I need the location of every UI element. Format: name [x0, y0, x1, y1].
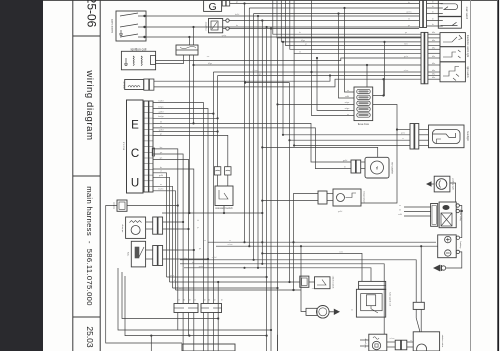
svg-text:re/sw: re/sw	[253, 70, 258, 72]
wire oxygen loop	[106, 206, 182, 344]
svg-text:bu/re: bu/re	[159, 188, 165, 191]
wire regulator 2	[229, 28, 419, 30]
dark page edge right	[497, 0, 499, 351]
wire y82 cross	[244, 82, 290, 84]
loop tail 1	[150, 336, 152, 351]
fuel pump label	[365, 338, 367, 348]
svg-text:gn/gr: gn/gr	[222, 35, 227, 37]
ECU wire 12	[153, 169, 194, 304]
misc wire code labels	[170, 2, 413, 343]
TPS wires	[146, 249, 209, 260]
loop wire 2	[125, 276, 268, 337]
svg-text:re/sw: re/sw	[390, 338, 395, 340]
rev counter label	[391, 162, 394, 174]
rev counter	[365, 157, 389, 178]
bus wire 4	[180, 263, 384, 335]
fuse feed 1	[312, 0, 355, 116]
fuse feed 3	[276, 103, 354, 105]
ground battery	[433, 265, 446, 272]
wire headlight feed 3	[293, 144, 410, 146]
ECU	[127, 100, 155, 193]
trunk branch y13	[254, 13, 419, 15]
ECU wire 16	[153, 191, 176, 290]
wire neutral 1	[146, 15, 419, 17]
headlight label	[466, 131, 469, 141]
svg-text:ge/sw: ge/sw	[406, 12, 412, 14]
wire connector drop 2	[192, 26, 194, 45]
starter relay	[431, 202, 460, 228]
neutral switch	[116, 11, 146, 41]
ECU label	[124, 141, 126, 150]
handlebar switch right label	[466, 35, 469, 58]
sidebar divider 1	[73, 35, 100, 37]
ECU wire 1	[153, 103, 203, 304]
row y75	[218, 74, 421, 76]
svg-text:parking light: parking light	[451, 178, 454, 190]
ECU wire 2	[153, 109, 208, 304]
TPS connector	[153, 246, 163, 266]
fuse box	[354, 87, 373, 126]
staircase 6 drop	[293, 53, 295, 145]
ECU wire 15	[153, 186, 173, 288]
tail light wire	[450, 183, 456, 202]
svg-text:gn/bl: gn/bl	[338, 211, 343, 213]
wire generator	[230, 3, 419, 5]
headlight connector	[410, 124, 419, 150]
staircase wire 2	[277, 0, 421, 38]
relay wires	[398, 205, 431, 216]
fuse out 2 spine	[361, 105, 397, 204]
starter motor label	[441, 335, 444, 348]
main switch label	[465, 7, 468, 20]
wire neutral 3	[146, 36, 421, 38]
connector strip lower	[421, 32, 440, 83]
sidebar left border	[72, 0, 74, 351]
throttle position sensor	[131, 241, 145, 267]
junction P1a	[212, 113, 218, 133]
wire fuse drop x367	[366, 65, 368, 88]
svg-text:ECU 5.9: ECU 5.9	[124, 141, 126, 150]
svg-text:bu: bu	[236, 25, 238, 27]
spark coil label	[389, 292, 392, 306]
link wire y290	[176, 241, 307, 311]
strip wire labels	[432, 1, 436, 80]
ECU wire 7	[153, 131, 218, 133]
oxygen connector label	[113, 201, 115, 209]
svg-text:TPS: TPS	[128, 251, 130, 256]
regulator label	[204, 21, 207, 30]
svg-text:re/w: re/w	[339, 251, 343, 253]
fuse wire labels	[345, 90, 350, 116]
wire headlight feed 2	[288, 139, 410, 141]
staircase wire 1	[273, 0, 421, 34]
svg-text:main switch: main switch	[465, 7, 468, 20]
svg-text:rl: rl	[376, 166, 379, 171]
ECU wire 3	[153, 113, 213, 115]
loop tail 2	[277, 335, 279, 351]
rev counter wires	[343, 160, 365, 169]
row y72	[213, 71, 421, 73]
air temp wires	[146, 221, 190, 230]
ECU wire 5	[153, 123, 351, 162]
fuse drop horn	[382, 78, 384, 95]
svg-text:gn/bl: gn/bl	[159, 112, 164, 114]
svg-text:gn/bl: gn/bl	[343, 160, 348, 162]
svg-text:gn: gn	[259, 74, 261, 76]
headlight branch	[396, 128, 410, 130]
wire connector drop 1	[188, 36, 190, 45]
staircase wire 3	[281, 0, 421, 42]
sidebar right border	[99, 0, 101, 351]
svg-text:gr/bl: gr/bl	[159, 174, 164, 177]
headlight	[429, 125, 465, 148]
link wire y282 clutch	[170, 281, 300, 283]
ECU wire 9	[153, 149, 178, 304]
svg-text:br: br	[160, 166, 162, 169]
TPS label	[128, 251, 130, 256]
battery label	[459, 242, 462, 250]
svg-text:gn: gn	[408, 25, 410, 27]
diagram page border right	[470, 0, 472, 351]
svg-text:battery: battery	[459, 242, 462, 250]
coolant wire 1	[292, 194, 333, 292]
connector A tails	[178, 313, 194, 351]
fuel pump	[369, 334, 387, 351]
svg-text:ge/w: ge/w	[401, 133, 406, 135]
fuse feed 5	[343, 7, 354, 92]
ECU wire 8	[153, 135, 228, 166]
bus wire 2	[216, 245, 438, 247]
ECU wire 11	[153, 159, 189, 303]
svg-text:C: C	[131, 148, 139, 160]
air temp sensor	[126, 217, 146, 238]
fuse out 1	[373, 41, 386, 97]
svg-text:ignition coil: ignition coil	[131, 47, 147, 51]
coolant temp sensor	[318, 189, 361, 206]
connector top-left	[176, 45, 198, 55]
wire coil hot	[156, 58, 421, 61]
svg-text:25.03: 25.03	[85, 326, 95, 348]
tail light label	[451, 178, 454, 190]
sidebar text main harness	[85, 186, 94, 306]
clutch switch	[300, 276, 330, 289]
wire neutral 2	[146, 26, 419, 28]
clutch switch label	[332, 276, 335, 289]
coolant sensor label	[363, 191, 366, 204]
bus wire 253	[261, 241, 362, 281]
svg-text:clutch switch: clutch switch	[332, 276, 335, 289]
wire instrument top feed	[261, 146, 378, 157]
battery minus wire	[446, 252, 462, 268]
ECU wire 13	[153, 173, 167, 277]
sidestand out	[162, 206, 263, 215]
svg-text:bl/w: bl/w	[404, 44, 408, 46]
fuel pump connector	[395, 340, 407, 350]
ECU wire labels	[158, 100, 164, 190]
loop wire 0	[122, 272, 219, 320]
sidebar divider 2	[73, 175, 100, 177]
svg-text:w/sw: w/sw	[404, 70, 409, 72]
svg-text:rev counter: rev counter	[391, 162, 394, 174]
svg-text:or: or	[160, 183, 162, 186]
fuel pump connector wires	[387, 342, 413, 347]
connector strip upper	[420, 0, 443, 28]
instrument connector	[351, 160, 361, 173]
starter wires	[416, 246, 421, 332]
page top edge line	[43, 0, 497, 2]
staircase wire 5	[290, 0, 421, 49]
bottom connector B	[201, 304, 222, 313]
svg-text:ye/bl: ye/bl	[159, 129, 164, 131]
svg-text:br/gn: br/gn	[159, 105, 165, 108]
wire oxygen right	[127, 204, 179, 206]
link wire y288	[173, 287, 279, 289]
svg-text:headlight: headlight	[466, 131, 469, 141]
ignition coil	[121, 47, 155, 70]
start stop switch	[440, 47, 465, 62]
sidebar divider 3	[73, 316, 100, 318]
wire row y65	[194, 64, 422, 66]
wire P2a drop	[282, 41, 284, 135]
fuse feed 2	[316, 57, 354, 111]
bus labels	[183, 258, 204, 268]
sidestand switch	[215, 186, 233, 206]
battery	[438, 235, 460, 258]
svg-text:fuse box: fuse box	[358, 122, 370, 126]
sidestand wire a	[217, 175, 219, 186]
sidestand connectors	[214, 167, 231, 175]
wire pickup 2	[154, 79, 421, 87]
headlight wires	[419, 130, 429, 146]
sidestand switch label	[215, 207, 233, 210]
throttle body box	[182, 344, 235, 351]
svg-text:re/sw: re/sw	[228, 244, 233, 246]
svg-text:re/bl: re/bl	[345, 96, 349, 98]
wire regulator 1	[229, 20, 419, 22]
light switch	[440, 62, 465, 82]
coolant wire 2	[261, 200, 333, 202]
wire headlight feed 1	[282, 134, 410, 136]
svg-text:handlebar switch right: handlebar switch right	[466, 35, 469, 58]
sidebar text 25.03	[85, 326, 95, 348]
svg-text:neutral switch: neutral switch	[111, 18, 114, 33]
link wire y277	[167, 276, 268, 278]
svg-text:25-06: 25-06	[85, 0, 99, 28]
ECU wire 4	[153, 117, 218, 119]
bus wire 3	[180, 259, 416, 303]
svg-text:light switch: light switch	[466, 66, 469, 78]
fuel pump wires	[360, 340, 369, 346]
svg-text:bu/gn: bu/gn	[158, 116, 164, 118]
wire P2b drop	[288, 83, 290, 284]
wire connector tail 1	[156, 55, 184, 64]
svg-text:G: G	[209, 1, 217, 13]
bus wire 1	[204, 240, 436, 243]
ECU wire 14	[153, 177, 170, 282]
staircase wire 4	[286, 0, 421, 46]
spark coil	[356, 281, 385, 317]
svg-text:U: U	[131, 178, 139, 190]
black binder band left edge	[0, 0, 43, 351]
wire pickup 1	[154, 76, 330, 82]
regulator rectifier	[209, 19, 230, 33]
bus wire 5	[184, 267, 371, 282]
main switch	[438, 0, 461, 28]
ECU wire 6	[153, 128, 351, 169]
svg-text:sw/bl: sw/bl	[212, 257, 217, 259]
svg-text:main harness - 586.11.075.00: main harness - 586.11.075.000	[85, 186, 94, 306]
main harness trunk bundle	[243, 2, 272, 351]
sidebar text wiring diagram	[84, 69, 95, 140]
wire connector tail 2	[188, 55, 190, 214]
air temp connector	[153, 217, 163, 234]
pickup coil	[125, 79, 154, 90]
svg-text:starter motor: starter motor	[441, 335, 444, 348]
starter connector	[413, 302, 424, 309]
svg-text:bu/bl: bu/bl	[235, 14, 240, 16]
battery plus wire	[459, 206, 463, 238]
svg-text:air temp.: air temp.	[121, 223, 124, 232]
staircase wire 6	[294, 0, 421, 53]
generator G	[204, 0, 230, 13]
trunk line x277	[277, 38, 279, 351]
light switch label	[466, 66, 469, 78]
sidebar text 25-06	[85, 0, 99, 28]
bottom connector A	[174, 304, 198, 313]
sidestand wire b	[227, 175, 229, 186]
neutral switch label	[111, 18, 114, 33]
svg-text:wiring diagram: wiring diagram	[84, 69, 95, 140]
bottom connector labels	[178, 300, 223, 302]
tail light	[426, 176, 450, 192]
svg-text:temperature: temperature	[363, 191, 366, 204]
svg-text:re/bl: re/bl	[398, 214, 402, 216]
fuse feed 4	[337, 12, 354, 98]
riser A	[212, 72, 214, 304]
ECU wire 10	[153, 154, 183, 304]
svg-text:pick-up: pick-up	[124, 81, 126, 89]
handlebar switch right	[440, 33, 465, 47]
wire connector tail 3	[192, 55, 194, 125]
starter motor	[413, 332, 439, 351]
svg-text:twin spark coil: twin spark coil	[389, 292, 392, 306]
pickup label	[124, 81, 126, 89]
svg-text:gr: gr	[160, 132, 162, 135]
riser B	[217, 76, 219, 167]
svg-text:re/gn: re/gn	[345, 108, 350, 110]
svg-text:bu: bu	[174, 280, 176, 282]
connector B tails	[203, 281, 219, 351]
svg-text:regulator: regulator	[204, 21, 207, 30]
svg-text:bu/bl: bu/bl	[159, 100, 164, 102]
svg-text:E: E	[131, 120, 139, 132]
trunk branch y8	[249, 7, 419, 9]
spark plug	[306, 306, 340, 319]
starter relay label	[459, 209, 462, 221]
loop wire 1	[118, 268, 272, 331]
svg-text:lambda: lambda	[113, 201, 115, 209]
oxygen sensor connector	[117, 200, 127, 211]
air temp label	[121, 223, 124, 232]
